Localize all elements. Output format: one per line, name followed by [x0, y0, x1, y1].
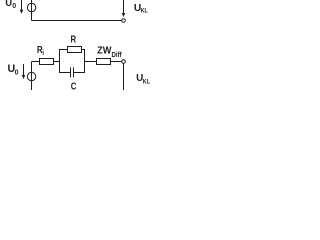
- svg-text:KL: KL: [143, 78, 150, 85]
- wire Ri to node: [54, 61, 60, 63]
- wire top branch right: [82, 49, 85, 51]
- voltage arrow U0 (bottom): [22, 64, 26, 79]
- svg-text:R: R: [71, 35, 77, 46]
- svg-text:0: 0: [15, 67, 19, 76]
- capacitor C: [71, 67, 74, 77]
- svg-text:0: 0: [12, 1, 16, 10]
- terminal node: [122, 19, 126, 23]
- terminal node: [122, 60, 126, 64]
- voltage arrow UKL (bottom, cut): [123, 63, 125, 90]
- resistor Ri: [40, 59, 54, 65]
- wire node to ZW: [85, 61, 97, 63]
- voltage arrow UKL (top): [122, 0, 126, 17]
- wire ZW to terminal: [111, 61, 122, 63]
- wire top branch left: [60, 49, 68, 51]
- wire bottom branch left: [60, 72, 71, 74]
- svg-text:KL: KL: [141, 8, 148, 15]
- svg-text:C: C: [71, 81, 77, 90]
- source U1 lead through: [31, 0, 33, 21]
- source circle: [27, 72, 35, 80]
- svg-text:i: i: [42, 48, 44, 57]
- svg-text:U: U: [5, 0, 12, 9]
- resistor R: [68, 47, 82, 53]
- wire bottom branch right: [74, 72, 85, 74]
- node right vertical: [84, 49, 86, 73]
- impedance ZWDiff: [97, 59, 111, 65]
- wire bottom: [32, 20, 122, 22]
- svg-text:ZW: ZW: [97, 46, 112, 57]
- svg-text:Diff: Diff: [112, 52, 123, 59]
- source lead through: [31, 62, 33, 91]
- voltage arrow U0 (top): [20, 0, 24, 14]
- node left vertical: [59, 49, 61, 73]
- wire source to Ri: [32, 61, 40, 63]
- source circle U1: [27, 3, 35, 11]
